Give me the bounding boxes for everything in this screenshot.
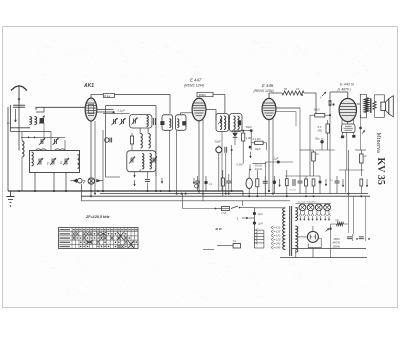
coil IF2a xyxy=(141,134,143,149)
wire E446 top right drop xyxy=(315,93,317,114)
resistor busrow xyxy=(221,178,224,186)
svg-text:10: 10 xyxy=(296,87,300,91)
junction E446 xyxy=(268,190,270,192)
tube socket E443 xyxy=(342,124,356,133)
wire E447 cathode xyxy=(198,121,200,194)
wire E447 box link xyxy=(213,93,225,95)
svg-text:150: 150 xyxy=(276,234,281,238)
heater socket 1 xyxy=(299,204,306,211)
svg-text:L: L xyxy=(237,217,239,221)
svg-text:1,5A: 1,5A xyxy=(221,211,227,215)
svg-text:0,5M: 0,5M xyxy=(237,163,244,167)
arrow zigzag end xyxy=(301,94,303,96)
wire osc drops xyxy=(169,130,171,191)
junction dots busline xyxy=(18,190,20,192)
bus ground main xyxy=(8,190,243,192)
wire bus corner xyxy=(242,191,244,196)
coil IF3a xyxy=(142,154,144,170)
svg-text:(RENS 1294): (RENS 1294) xyxy=(184,84,204,88)
wave-range table marks xyxy=(73,232,75,235)
coil can IF1 xyxy=(130,115,153,129)
voltage tap arrows xyxy=(271,226,274,230)
wire det horizontal xyxy=(232,130,252,132)
capacitor 2uF b xyxy=(253,221,256,224)
svg-text:AK1 E447 E446 E443: AK1 E447 E446 E443 xyxy=(297,201,317,204)
svg-text:2004): 2004) xyxy=(332,244,340,248)
wire block mid verticals xyxy=(139,128,141,134)
speaker cone xyxy=(386,99,389,114)
wire link y137 xyxy=(21,136,65,138)
variable capacitor IF1 xyxy=(133,119,135,124)
fuse bottom xyxy=(233,244,240,249)
svg-text:E 446: E 446 xyxy=(262,83,274,88)
svg-text:4,1 kΩ: 4,1 kΩ xyxy=(253,137,261,141)
wave-range table xyxy=(59,228,139,249)
svg-text:2μF: 2μF xyxy=(257,222,263,226)
speaker frame xyxy=(375,95,385,102)
svg-text:18μF: 18μF xyxy=(255,147,261,151)
svg-text:30kΩ: 30kΩ xyxy=(314,108,320,112)
bus fourth xyxy=(82,200,291,202)
coil L1 antenna xyxy=(30,117,32,125)
arrow small E443 xyxy=(322,92,326,96)
wire grid drop E443 xyxy=(309,115,311,176)
output transformer core xyxy=(370,99,372,113)
wire det col xyxy=(250,131,252,150)
resistor 4,1kohm xyxy=(255,141,264,144)
electrolytic busrow xyxy=(204,181,207,184)
wire bottom connects xyxy=(312,254,314,258)
capacitor 2uF det xyxy=(265,161,293,163)
arrow mid row xyxy=(279,179,281,185)
wire AK1 to block xyxy=(97,109,114,111)
HT row comps xyxy=(298,180,303,182)
switch arrow xyxy=(73,179,77,183)
transformer primary winding xyxy=(283,208,286,250)
variable capacitor IF3 xyxy=(130,158,132,163)
wire block col drops xyxy=(139,169,141,172)
resistor mid row 2 xyxy=(285,179,288,186)
wire socket down xyxy=(346,133,348,171)
wire E447 anode xyxy=(206,109,216,111)
svg-text:KV 35: KV 35 xyxy=(375,158,386,185)
capacitor grid E443 xyxy=(328,100,330,106)
svg-text:5: 5 xyxy=(60,161,62,165)
wire E443 cathode pins xyxy=(341,120,343,125)
variable capacitor osc 1 xyxy=(113,119,115,124)
primary tap rows xyxy=(254,229,264,231)
junction dots bus2 xyxy=(181,193,183,195)
wire osc top xyxy=(181,112,193,114)
osc coil box 2 xyxy=(176,115,186,131)
ground xyxy=(10,191,12,197)
resistor 5M E443 xyxy=(326,124,329,133)
wire input top link xyxy=(36,107,85,110)
svg-text:10 kΩ: 10 kΩ xyxy=(255,167,262,171)
svg-text:50μF: 50μF xyxy=(215,140,222,144)
tuning gang box xyxy=(30,151,80,173)
tube E446 xyxy=(262,98,276,119)
variable capacitor gang 3 xyxy=(64,159,66,165)
capacitor input series xyxy=(13,104,25,106)
wire rect top xyxy=(312,226,314,231)
resistor grid zigzag xyxy=(269,92,282,94)
svg-text:(RENS 1284): (RENS 1284) xyxy=(254,89,274,93)
coil IF3b xyxy=(150,154,152,170)
svg-text:125: 125 xyxy=(276,230,281,234)
svg-text:110: 110 xyxy=(276,226,281,230)
svg-text:T,A: T,A xyxy=(233,240,237,243)
variable capacitor gang 1 xyxy=(38,159,40,165)
IF transformer can 2a xyxy=(216,114,229,132)
junction dot 360 xyxy=(359,127,362,130)
volume potentiometer xyxy=(246,178,252,188)
capacitor small left xyxy=(105,138,109,142)
heater bus top xyxy=(295,203,331,205)
resistor hum xyxy=(331,223,337,225)
wire left drop xyxy=(10,105,12,132)
arrow lamp right xyxy=(97,179,101,182)
wire heater left xyxy=(296,206,298,208)
wire hum column xyxy=(330,224,332,258)
svg-text:30kΩ: 30kΩ xyxy=(199,93,207,97)
capacitor pair mid xyxy=(292,179,294,186)
variable capacitor input a xyxy=(40,139,42,144)
coil tuning left edge xyxy=(32,152,34,166)
coil tuning right edge xyxy=(78,155,80,169)
bus bottom right xyxy=(292,247,366,249)
dial lamp xyxy=(78,178,83,183)
svg-text:y: y xyxy=(46,161,49,165)
output transformer secondary xyxy=(373,101,376,109)
capacitor fixed block xyxy=(40,119,44,124)
capacitor 18uF xyxy=(249,146,252,149)
wire E446 anode pair xyxy=(276,107,300,109)
heater socket 4 xyxy=(324,204,331,211)
wire input curve xyxy=(36,107,44,112)
label box 0,1u xyxy=(104,93,115,97)
fuse mains xyxy=(221,207,229,211)
junction osc xyxy=(169,190,171,192)
heater pins xyxy=(300,211,302,214)
diode detector xyxy=(233,133,238,137)
variable capacitor input b xyxy=(54,139,56,144)
wire input horizontals xyxy=(11,127,31,129)
wire bus left vertical xyxy=(7,107,9,191)
capacitor IF1 right xyxy=(153,118,155,125)
pilot lamp xyxy=(88,178,94,184)
bus second xyxy=(82,195,371,197)
arrow det 1 xyxy=(250,152,252,158)
IF transformer can 2b xyxy=(230,114,243,132)
resistor 1,0Mohm xyxy=(242,133,245,141)
coil can IF3 xyxy=(127,151,156,172)
label box E447 xyxy=(197,92,213,96)
wire right verticals long xyxy=(352,196,354,234)
svg-text:50μ: 50μ xyxy=(315,137,320,141)
tube E447 xyxy=(192,98,206,121)
speaker coil box xyxy=(381,102,386,110)
wire output bottom loop xyxy=(360,104,366,118)
arrow bus 1 xyxy=(161,178,163,183)
bus lowest xyxy=(280,257,367,259)
wire mains top xyxy=(182,194,184,209)
antenna xyxy=(11,86,27,91)
svg-text:ZF=128,5 kHz: ZF=128,5 kHz xyxy=(85,215,110,219)
svg-text:245: 245 xyxy=(275,246,281,250)
svg-text:Minerva: Minerva xyxy=(375,133,381,154)
coil IF2b xyxy=(149,134,151,149)
trimmer IF3 right xyxy=(152,158,154,163)
right caps group xyxy=(347,236,352,238)
coil antenna secondary xyxy=(22,141,24,157)
resistor mid row xyxy=(256,179,259,187)
svg-text:(L 4870 ): (L 4870 ) xyxy=(338,88,352,92)
shield box sides xyxy=(105,106,107,177)
wire mains vertical xyxy=(253,208,255,249)
capacitor 2uF a xyxy=(253,212,256,215)
svg-text:5,0: 5,0 xyxy=(318,125,322,129)
wire gang drops xyxy=(34,173,36,192)
coil IF1 xyxy=(147,116,149,127)
junction dots bus mid xyxy=(97,190,99,192)
shield box top xyxy=(106,105,156,107)
switch mains xyxy=(231,206,238,209)
wire E446 cathode xyxy=(268,120,270,191)
svg-text:240: 240 xyxy=(275,242,281,246)
electrolytic E447 xyxy=(216,147,222,153)
svg-text:E 443 N: E 443 N xyxy=(340,83,354,87)
transformer secondary top xyxy=(295,208,297,221)
capacitor below block xyxy=(145,179,150,181)
svg-text:2μF: 2μF xyxy=(257,212,263,216)
wire rectifier xyxy=(296,236,307,238)
wire tap vertical xyxy=(263,230,265,248)
heater socket 3 xyxy=(315,204,322,211)
svg-text:E 447: E 447 xyxy=(190,78,202,83)
wire AK1 cathode down xyxy=(90,121,92,196)
wire to output transformer xyxy=(357,94,367,104)
arrow input select xyxy=(15,109,17,122)
variable capacitor osc 2 xyxy=(121,119,123,124)
electrolytic mid dark xyxy=(273,180,277,184)
svg-text:220: 220 xyxy=(275,238,281,242)
bus third xyxy=(100,193,368,195)
svg-text:AK1: AK1 xyxy=(83,83,94,89)
svg-text:50: 50 xyxy=(284,87,288,91)
capacitor E447 cath xyxy=(224,147,226,153)
junction dots gang xyxy=(34,190,36,192)
output transformer primary xyxy=(365,98,369,113)
wire top link AK1 xyxy=(91,93,104,95)
wire top drop right xyxy=(169,94,171,113)
electrolytic E443 xyxy=(320,140,323,143)
wire HT verticals xyxy=(347,150,349,193)
ghost bleed-through texture xyxy=(78,45,80,48)
wire bottom mains xyxy=(254,247,264,249)
svg-text:2μF: 2μF xyxy=(273,156,279,160)
junction dot AK1 out xyxy=(113,111,115,113)
svg-text:750: 750 xyxy=(335,220,340,223)
transformer core lines xyxy=(289,206,291,256)
rectifier tube xyxy=(307,231,318,242)
tube E443N xyxy=(339,98,356,121)
transformer secondary main xyxy=(295,226,298,252)
wire left col2 xyxy=(18,112,20,151)
coil L2 antenna xyxy=(35,117,37,125)
cap small busrow a xyxy=(195,180,200,182)
svg-text:50μF: 50μF xyxy=(246,125,253,129)
wire primary top xyxy=(242,201,244,206)
resistor HT1 xyxy=(312,152,316,161)
heater socket 2 xyxy=(307,204,314,211)
resistor HT2 xyxy=(360,154,364,163)
capacitor mid row xyxy=(263,180,268,182)
wire E443 top xyxy=(330,91,348,93)
svg-text:MΩ: MΩ xyxy=(318,129,322,133)
tube AK1 xyxy=(85,98,97,121)
svg-text:0,1μF: 0,1μF xyxy=(118,109,126,113)
arrow det 2 xyxy=(249,165,251,171)
svg-text:50 kΩ: 50 kΩ xyxy=(255,164,262,168)
arrow pot left xyxy=(193,178,195,184)
resistor 30k E443 xyxy=(315,113,325,117)
svg-text:0,1 0,1: 0,1 0,1 xyxy=(290,190,297,192)
socket legs E443 xyxy=(342,133,344,137)
wire arrows below block xyxy=(134,172,136,177)
wire antenna down xyxy=(18,104,20,112)
resistor osc xyxy=(130,136,133,144)
svg-text:0,1μ: 0,1μ xyxy=(104,94,110,98)
capacitor busrow b xyxy=(226,180,231,182)
wire right col drops xyxy=(347,193,349,233)
wire det link xyxy=(252,163,265,165)
variable capacitor gang 2 xyxy=(51,159,53,165)
osc coil box 1 xyxy=(162,115,173,131)
wire det col xyxy=(231,145,233,155)
wire bus drop from lamp xyxy=(81,184,83,201)
